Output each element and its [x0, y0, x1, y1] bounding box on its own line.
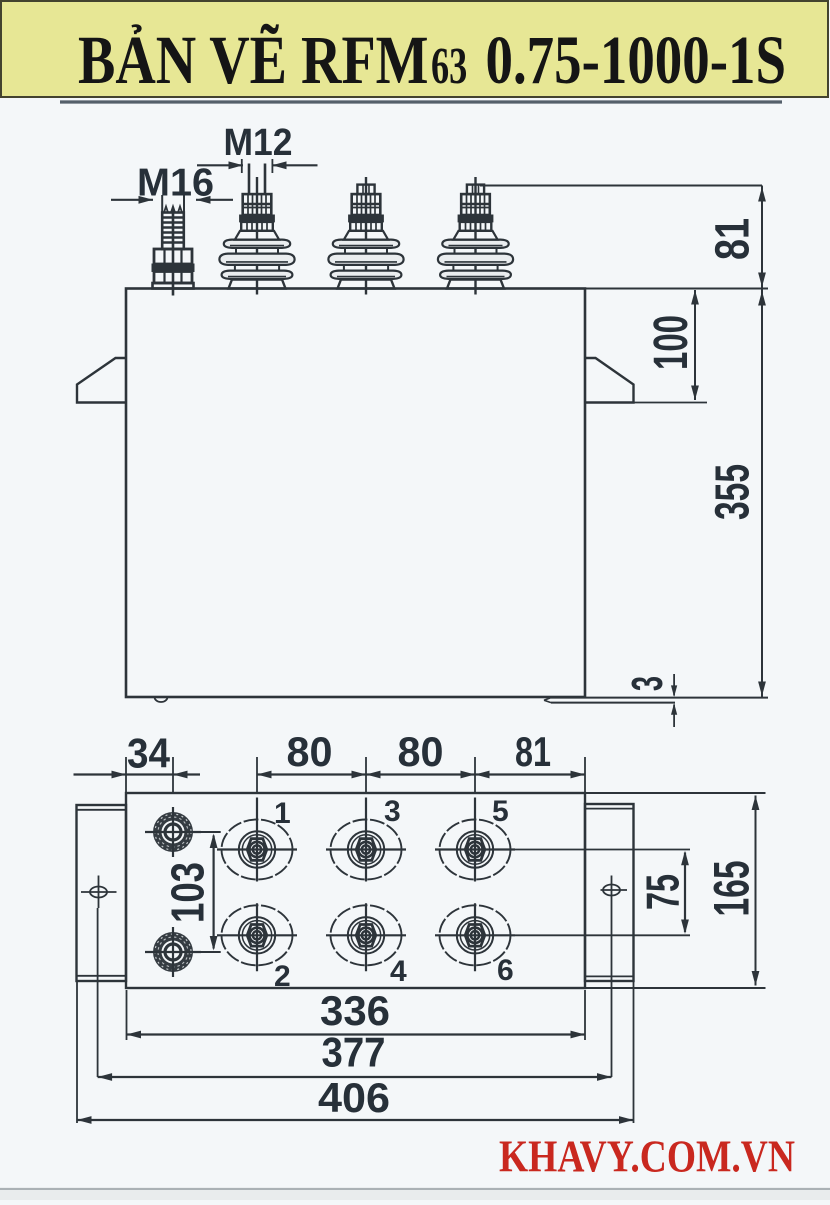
left mounting flange (bottom view) — [77, 805, 127, 981]
svg-text:336: 336 — [320, 987, 390, 1034]
dimension 34 — [74, 773, 127, 775]
extension: right hole center to 377 dim — [611, 876, 613, 1078]
svg-text:355: 355 — [707, 464, 760, 520]
svg-text:KHAVY.COM.VN: KHAVY.COM.VN — [499, 1132, 795, 1182]
dimension 377 (hole spacing) — [98, 1076, 612, 1078]
svg-text:406: 406 — [318, 1074, 390, 1121]
svg-text:0.75-1000-1S: 0.75-1000-1S — [486, 22, 787, 98]
title banner — [1, 1, 828, 97]
svg-text:6: 6 — [497, 954, 514, 987]
svg-text:1: 1 — [274, 797, 291, 830]
bottom gray band — [0, 1188, 830, 1190]
svg-text:5: 5 — [492, 795, 509, 828]
dimension 80 (terminals 3-5) — [366, 773, 475, 775]
terminal 5 — [435, 798, 515, 882]
bottom view: terminal face outline — [126, 793, 585, 988]
svg-text:81: 81 — [707, 218, 760, 260]
svg-text:81: 81 — [515, 728, 551, 775]
bushing 3 — [328, 177, 403, 295]
right mounting bracket (side view) — [585, 358, 634, 403]
left mounting bracket (side view) — [77, 358, 126, 403]
dimension 355 (tank height) — [761, 289, 763, 698]
svg-text:100: 100 — [645, 315, 698, 370]
terminal 3 — [326, 798, 406, 882]
svg-text:63: 63 — [431, 38, 467, 95]
bushing 4 — [438, 177, 513, 295]
terminal 1 — [217, 798, 297, 882]
svg-text:80: 80 — [287, 728, 333, 775]
svg-text:2: 2 — [274, 960, 291, 993]
banner shadow line — [60, 100, 782, 103]
dimension 103 (small terminal spacing) — [213, 836, 215, 949]
terminal 6 — [435, 903, 515, 971]
M12 bushing 2 (with long stud) — [219, 164, 294, 295]
svg-text:BẢN VẼ RFM: BẢN VẼ RFM — [78, 22, 429, 98]
bottom mounting plate, 3mm — [551, 697, 768, 699]
left flange hole — [90, 887, 107, 898]
svg-text:M12: M12 — [224, 122, 293, 164]
right flange hole — [603, 885, 620, 896]
dimension 336 — [127, 1033, 586, 1035]
dimension 81 (terminal 5 to edge) — [475, 773, 585, 775]
dimension 80 (terminals 1-3) — [257, 773, 366, 775]
dimension 406 (overall length) — [77, 1119, 634, 1121]
extension verticals for 336 — [126, 990, 128, 1040]
svg-text:3: 3 — [623, 676, 672, 691]
M16 bushing (small stud insulator) — [152, 207, 194, 296]
terminal 2 — [217, 903, 297, 971]
extension verticals for 406 — [76, 981, 78, 1123]
dimension 100 (bracket position) — [694, 290, 696, 400]
svg-text:3: 3 — [384, 795, 401, 828]
dimension 81 (bushing height) — [761, 186, 763, 289]
drain bump on bottom — [155, 697, 168, 702]
dimension 3 (plate thickness) — [673, 674, 675, 696]
small terminal (M16) bottom — [145, 927, 201, 977]
svg-text:M16: M16 — [137, 162, 214, 205]
svg-text:75: 75 — [637, 874, 689, 910]
extension: left hole center to 377 dim — [97, 908, 99, 1077]
extension of tank top edge — [585, 288, 768, 290]
svg-text:4: 4 — [390, 955, 407, 988]
svg-text:34: 34 — [127, 730, 171, 777]
right mounting flange (bottom view) — [585, 804, 634, 981]
M16 extension lines — [161, 195, 163, 214]
dimension 165 (body depth) — [585, 792, 766, 794]
svg-text:80: 80 — [398, 728, 444, 775]
small terminal (M16) top — [145, 807, 201, 857]
svg-text:103: 103 — [162, 862, 214, 923]
svg-text:377: 377 — [322, 1029, 386, 1076]
reference line from bushing 4 top to 81-dimension — [480, 185, 762, 187]
svg-text:165: 165 — [704, 861, 760, 917]
dimension 75 (row spacing) — [515, 849, 690, 851]
capacitor tank body (side view) — [126, 289, 585, 698]
extension lines for top dimension row — [125, 757, 127, 792]
terminal 4 — [326, 903, 406, 971]
